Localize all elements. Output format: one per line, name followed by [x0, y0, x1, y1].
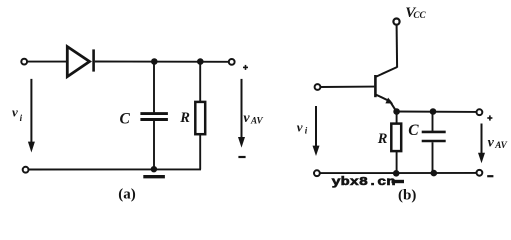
svg-text:AV: AV	[250, 116, 263, 126]
svg-text:AV: AV	[494, 140, 507, 150]
svg-text:CC: CC	[413, 10, 426, 20]
svg-text:R: R	[179, 110, 190, 126]
svg-text:v: v	[243, 111, 250, 126]
svg-text:ybx8.cn: ybx8.cn	[332, 175, 396, 189]
svg-text:C: C	[120, 111, 131, 128]
svg-text:(b): (b)	[398, 188, 416, 204]
svg-text:v: v	[12, 105, 18, 120]
svg-text:v: v	[488, 135, 495, 150]
svg-text:v: v	[297, 119, 303, 134]
svg-text:R: R	[377, 131, 388, 147]
svg-text:(a): (a)	[118, 187, 136, 203]
svg-text:C: C	[408, 122, 419, 139]
